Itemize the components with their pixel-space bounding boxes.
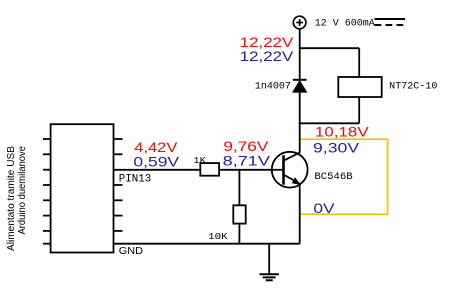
svg-text:Alimentato tramite USB: Alimentato tramite USB [6,146,17,251]
svg-text:12 V 600mA: 12 V 600mA [315,18,375,29]
svg-text:12,22V: 12,22V [240,48,294,64]
DC symbol [375,19,406,25]
svg-text:8,71V: 8,71V [223,152,271,168]
highlight box (orange measurement region) [300,139,388,214]
svg-text:1n4007: 1n4007 [255,82,291,93]
wire PIN13 to 1K resistor [114,169,201,171]
arduino block [43,124,123,252]
transistor Q1 BC546B [271,152,308,188]
pin ticks left [43,138,51,140]
wire diode to collector vertical [299,91,301,153]
svg-text:1K: 1K [193,155,206,166]
wire relay bottom vertical [358,97,360,124]
svg-text:10K: 10K [208,231,228,242]
svg-text:0,59V: 0,59V [133,153,180,169]
svg-text:0V: 0V [313,200,335,216]
wire 1K to base [219,169,283,171]
wire supply vertical [299,29,301,80]
svg-text:PIN13: PIN13 [119,174,152,186]
ground [260,244,279,281]
svg-text:Arduino duemilanove: Arduino duemilanove [17,146,28,235]
wire base junction to 10K [238,170,240,206]
svg-text:10,18V: 10,18V [315,123,370,139]
wire GND rail [114,243,300,245]
relay NT72C-10 [338,77,381,97]
wire relay top vertical [358,48,360,77]
resistor R2 10K [233,205,245,223]
wire emitter vertical [299,184,301,244]
svg-text:BC546B: BC546B [314,172,352,183]
wire bottom junction horizontal [299,122,359,124]
wire 10K to ground rail [238,224,240,244]
power supply +12V symbol [293,16,306,29]
pin ticks right [114,138,123,140]
wire top junction horizontal [299,47,359,49]
svg-text:GND: GND [119,246,143,257]
svg-text:NT72C-10: NT72C-10 [389,82,437,93]
resistor R1 1K [200,163,219,176]
svg-text:9,30V: 9,30V [313,139,360,155]
diode D1 1n4007 [293,80,307,92]
